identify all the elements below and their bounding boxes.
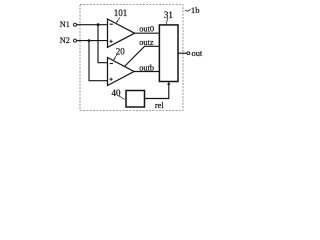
junction on N1 wire: [97, 23, 100, 26]
svg-text:1b: 1b: [191, 5, 200, 15]
svg-text:rel: rel: [155, 101, 165, 110]
svg-text:20: 20: [116, 47, 126, 57]
op-amp 101 plus sign: [109, 40, 112, 43]
op-amp 101: [108, 19, 135, 47]
op-amp 20 minus sign: [110, 63, 113, 65]
wire outb from op-amp 20 to block 31: [134, 71, 159, 73]
arrowhead into block 31: [167, 82, 170, 85]
wire N1 tap down to op-amp 20 minus input: [98, 25, 108, 63]
dashed enclosure 1b: [80, 5, 183, 111]
svg-text:N2: N2: [60, 36, 70, 45]
svg-text:101: 101: [114, 8, 128, 18]
svg-text:31: 31: [164, 10, 173, 20]
wire outz from op-amp 20 slant edge to block 31: [125, 46, 160, 66]
wire out0 from op-amp 101 to block 31: [135, 32, 160, 34]
op-amp 20: [108, 58, 135, 86]
wire N2 to op-amp 101 plus input: [77, 40, 108, 42]
terminal N2: [74, 39, 77, 42]
leader for label 31: [166, 18, 168, 24]
terminal out: [187, 52, 190, 55]
block 40: [126, 91, 145, 108]
terminal N1: [74, 23, 77, 26]
leader arrow for label 20: [114, 55, 116, 59]
svg-text:outz: outz: [139, 38, 154, 47]
op-amp 101 minus sign: [110, 23, 113, 25]
block 31: [159, 25, 178, 82]
junction on N2 wire: [88, 39, 91, 42]
wire out from block 31: [178, 52, 187, 54]
leader for label 40: [119, 96, 125, 99]
svg-text:N1: N1: [60, 20, 70, 29]
op-amp 20 plus sign: [109, 78, 112, 81]
wire N1 to op-amp 101 minus input: [77, 24, 108, 26]
wire rel from block 40 up into block 31: [145, 84, 169, 99]
label 1b leader hook: [185, 9, 191, 11]
svg-text:outb: outb: [139, 64, 154, 73]
leader arrow for label 101: [117, 17, 120, 22]
wire N2 tap down to op-amp 20 plus input: [89, 41, 108, 81]
svg-text:out0: out0: [139, 25, 154, 34]
svg-text:out: out: [192, 49, 203, 58]
